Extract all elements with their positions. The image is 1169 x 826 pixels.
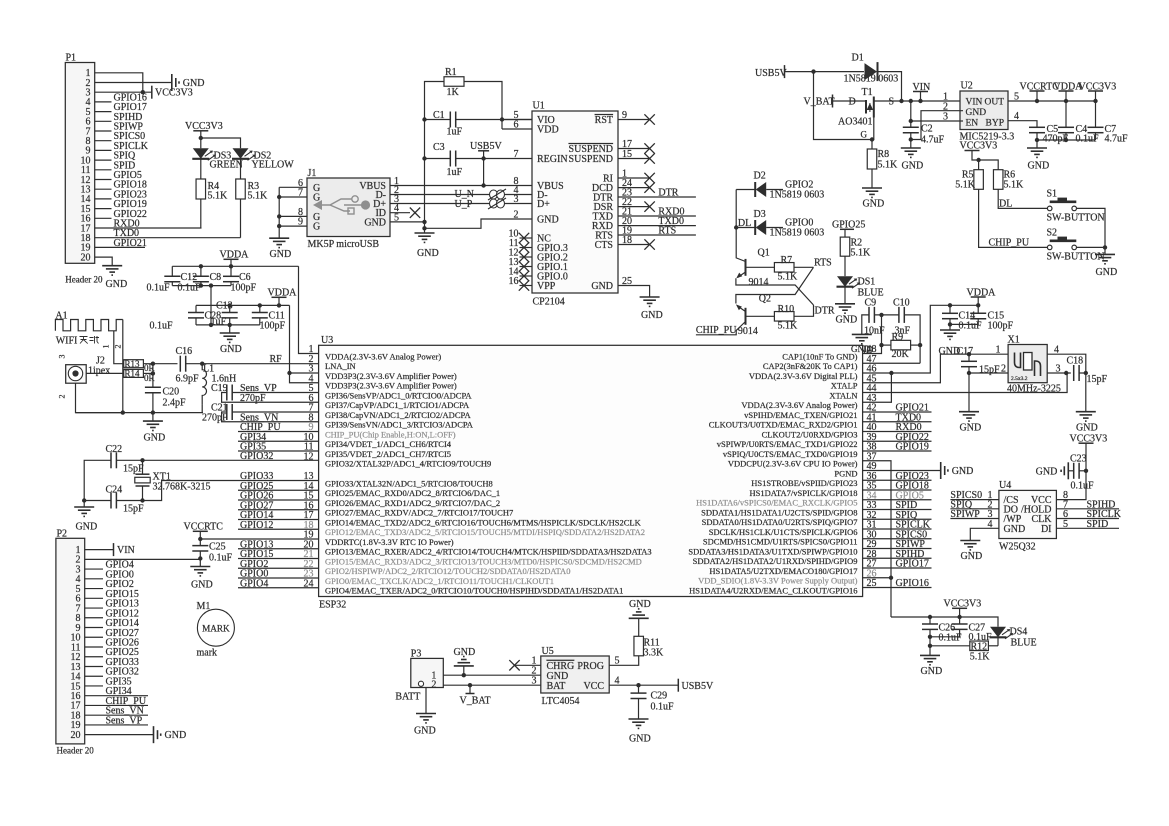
wire C3 right / REGIN [456, 158, 532, 160]
ground GND (USB input) [415, 232, 435, 234]
U1 pin 9 RST no-connect [618, 119, 650, 121]
svg-text:W25Q32: W25Q32 [999, 542, 1036, 553]
wire GPIO25 to R2 [844, 229, 846, 237]
U1 VIO pin wire [502, 119, 532, 121]
P2 pin 12 wire / net GPIO25 [85, 656, 103, 658]
svg-text:3: 3 [514, 194, 519, 205]
svg-text:S1: S1 [1047, 189, 1058, 200]
wire C7 legs [1095, 101, 1097, 127]
P2 pin 14 wire / net GPIO32 [85, 675, 103, 677]
svg-text:GPI39/SensVN/ADC1_3/RTCIO3/ADC: GPI39/SensVN/ADC1_3/RTCIO3/ADCPA [325, 420, 474, 430]
wire J1-4 ID no-connect [390, 212, 410, 214]
svg-text:GND: GND [961, 551, 983, 562]
svg-text:U4: U4 [999, 480, 1011, 491]
svg-text:C17: C17 [957, 346, 974, 357]
capacitor C21 270pF [226, 404, 228, 420]
capacitor C16 6.9pF [179, 356, 181, 372]
U1 pin 13 GPIO.1 no-connect [520, 266, 533, 268]
U4 GND pin wire [970, 528, 999, 540]
wire C1 left [425, 119, 451, 121]
svg-text:G: G [313, 222, 320, 233]
wire USB5V to D1 [785, 71, 865, 73]
svg-text:2.5x3.2: 2.5x3.2 [1011, 376, 1028, 382]
svg-text:RTS: RTS [658, 226, 676, 237]
wire L1 bottom to rail [201, 405, 203, 413]
svg-text:5.1K: 5.1K [778, 321, 799, 332]
U5 CHRG no-connect [515, 664, 541, 666]
wire J1-5 GND [390, 221, 425, 223]
wire C21 left to pin 8 Sens_VN [222, 412, 319, 422]
svg-text:USB5V: USB5V [755, 68, 787, 79]
svg-text:VDD3P3(2.3V-3.6V Amplifier Pow: VDD3P3(2.3V-3.6V Amplifier Power) [325, 381, 457, 391]
U1 pin 18 CTS no-connect [618, 244, 650, 246]
U3 pin 42 stub net GPIO21 [863, 411, 932, 413]
svg-text:SUSPEND: SUSPEND [569, 154, 613, 165]
U3 pin 10 stub net GPI34 [238, 440, 319, 442]
resistor R8 5.1K [867, 149, 877, 169]
U3 pin 15 stub net GPIO26 [238, 499, 319, 501]
wire X1 pin3 to C18 [1047, 372, 1071, 374]
svg-text:4.7uF: 4.7uF [1105, 134, 1129, 145]
svg-text:15pF: 15pF [123, 464, 144, 475]
svg-text:0.1uF: 0.1uF [147, 283, 171, 294]
wire U3 pin 26 [863, 577, 891, 579]
connector P1 Header 20 [65, 63, 94, 264]
svg-text:0.1uF: 0.1uF [178, 283, 202, 294]
svg-text:R10: R10 [778, 304, 795, 315]
wire antenna pin2 ground stub [122, 320, 124, 413]
svg-text:0.1uF: 0.1uF [939, 633, 963, 644]
svg-text:CHIP_PU(Chip Enable,H:ON,L:OFF: CHIP_PU(Chip Enable,H:ON,L:OFF) [325, 429, 456, 439]
wire U3 pin46/43 VDDA [863, 305, 950, 373]
svg-text:VIN: VIN [966, 98, 983, 108]
wire cluster1 to cluster2 gnd [210, 286, 212, 325]
wire CAP2 to U3 pin 47 [863, 362, 921, 364]
capacitor C29 0.1uF [631, 692, 647, 694]
svg-text:GND: GND [641, 310, 663, 321]
wire rail to GND [1036, 140, 1038, 148]
svg-text:VCC3V3: VCC3V3 [155, 88, 193, 99]
wire Q2 base / R10 [746, 315, 775, 317]
ground GND (P1 pin 20) [102, 265, 122, 267]
ground GND (C26/C27) [920, 654, 940, 656]
U1 pin 1 RI no-connect [618, 177, 650, 179]
capacitor C11 100pF [252, 312, 268, 314]
ground rail (antenna) [76, 412, 204, 414]
wire VDDA rail1 to U3 pin 1 [299, 266, 319, 353]
P1 pin 3 wire to VCC3V3 [95, 91, 152, 93]
svg-text:9014: 9014 [749, 277, 769, 288]
J1 pin 9 G wire [279, 225, 307, 227]
svg-text:GND: GND [836, 315, 858, 326]
U3 pin 35 stub net GPIO18 [863, 489, 932, 491]
wire Q1 emitter rail to DTR [736, 278, 814, 305]
capacitor C2 4.7uF [903, 126, 919, 128]
wire CAP1 vertical [863, 315, 882, 354]
wire rail to GND [152, 413, 154, 422]
svg-text:C9: C9 [865, 298, 877, 309]
wire R1 right leg [464, 82, 502, 130]
U3 pin 24 stub net GPIO4 [238, 587, 319, 589]
svg-text:D1: D1 [852, 53, 864, 64]
svg-text:SDDATA0/HS1DATA0/U2RTS/SPIQ/GP: SDDATA0/HS1DATA0/U2RTS/SPIQ/GPIO7 [702, 517, 858, 527]
U3 pin 30 stub net SPICS0 [863, 538, 932, 540]
svg-text:BATT: BATT [395, 692, 420, 703]
svg-text:VDDA(2.3V-3.6V Analog Power): VDDA(2.3V-3.6V Analog Power) [325, 351, 441, 361]
svg-text:R1: R1 [445, 67, 457, 78]
svg-text:GPIO17: GPIO17 [896, 559, 929, 570]
svg-text:VIN: VIN [117, 545, 135, 556]
ground GND (C18) [1076, 411, 1096, 413]
wire R13 out / RF node [143, 363, 177, 365]
U3 pin 32 stub net SPIQ [863, 518, 932, 520]
ground GND (U5, inverted) [463, 666, 465, 675]
U3 pin 25 stub net GPIO16 [863, 587, 932, 589]
wire DS4 to R12 [997, 638, 999, 646]
crystal X1 40MHz-3225 [1008, 345, 1047, 383]
IC U1 CP2104 [532, 111, 618, 293]
wire C17 bottom to GND [967, 371, 971, 375]
svg-text:15pF: 15pF [1087, 374, 1108, 385]
svg-text:VDDA(2.3V-3.6V Digital PLL): VDDA(2.3V-3.6V Digital PLL) [749, 371, 858, 381]
wire X1 pin4 [1047, 354, 1086, 373]
svg-text:C20: C20 [163, 387, 180, 398]
svg-text:GND: GND [106, 279, 128, 290]
LED DS2 YELLOW [233, 148, 249, 159]
resistor R10 5.1K [774, 312, 794, 322]
svg-text:1: 1 [102, 345, 111, 349]
ground GND (R11, inverted) [629, 617, 649, 619]
svg-text:C3: C3 [433, 142, 445, 153]
wire C17 legs [968, 354, 970, 361]
ground GND (C5) [1027, 147, 1047, 149]
svg-text:SPIWP: SPIWP [950, 509, 980, 520]
svg-text:R7: R7 [781, 255, 793, 266]
svg-text:16: 16 [509, 276, 519, 287]
wire Q2 collector to CHIP_PU [696, 322, 746, 335]
svg-text:GPIO27/EMAC_RXDV/ADC2_7/RTCIO1: GPIO27/EMAC_RXDV/ADC2_7/RTCIO17/TOUCH7 [325, 508, 513, 518]
svg-text:GPIO14/EMAC_TXD2/ADC2_6/RTCIO1: GPIO14/EMAC_TXD2/ADC2_6/RTCIO16/TOUCH6/M… [325, 517, 642, 527]
wire J2 ground [76, 383, 123, 412]
svg-text:GND: GND [629, 734, 651, 745]
ground GND (U4) [960, 540, 980, 542]
wire C24 right to GPIO33 [116, 481, 318, 501]
resistor R12 5.1K [970, 641, 989, 651]
P1 pin 5 wire / net GPIO17 [95, 111, 112, 113]
P1 pin 18 wire / net TXD0 [95, 237, 241, 239]
capacitor C5 470pF [1029, 126, 1045, 128]
svg-text:5.1K: 5.1K [851, 248, 872, 259]
wire U5 VCC to USB5V [609, 684, 678, 686]
U3 pin 34 stub net GPIO5 [863, 499, 932, 501]
svg-text:LNA_IN: LNA_IN [325, 361, 356, 371]
U1 pin 12 GPIO.2 no-connect [520, 256, 533, 258]
svg-text:DL: DL [999, 199, 1012, 210]
gnd rail cluster 1 [172, 285, 231, 287]
ground GND (DS1) [835, 303, 855, 305]
ground GND (C25) [190, 566, 210, 568]
no-connect X (J1 ID) [410, 208, 420, 218]
svg-text:5.1K: 5.1K [248, 191, 269, 202]
svg-text:GREEN: GREEN [210, 160, 243, 171]
wire C3 left [425, 158, 451, 160]
capacitor C8 0.1uF [193, 275, 209, 277]
svg-text:RTS: RTS [814, 258, 832, 269]
P1 pin 13 wire / net GPIO18 [95, 188, 112, 190]
wire Q1 base / R7 [746, 266, 775, 268]
U3 pin 38 stub net GPIO19 [863, 450, 932, 452]
wire C24 left to GND [84, 501, 111, 508]
node USB5V/VBUS junction [481, 183, 485, 187]
wire X1 pin2 [969, 372, 1008, 374]
wire VDDA rail2 to U3 pins 3/4 [290, 305, 319, 382]
svg-text:GND: GND [863, 199, 885, 210]
wire VCC3V3 to DS2 [201, 138, 241, 148]
svg-text:1N5819 0603: 1N5819 0603 [770, 228, 825, 239]
U3 pin 40 stub net RXD0 [863, 431, 932, 433]
U4 pin 6 wire net SPICLK [1056, 518, 1119, 520]
svg-text:GPIO19: GPIO19 [896, 442, 929, 453]
svg-text:1uF: 1uF [447, 127, 463, 138]
svg-text:C16: C16 [176, 346, 193, 357]
resistor R11 3.3K [634, 636, 644, 656]
svg-text:3: 3 [1056, 364, 1061, 375]
svg-text:D: D [849, 97, 856, 108]
wire DS1 to GND [844, 287, 846, 304]
node P3/U5 gnd junction [462, 673, 466, 677]
U3 pin 23 stub net GPIO0 [238, 577, 319, 579]
svg-text:MK5P microUSB: MK5P microUSB [308, 239, 380, 250]
svg-text:YELLOW: YELLOW [252, 160, 295, 171]
U3 pin 21 stub net GPIO15 [238, 558, 319, 560]
svg-text:mark: mark [197, 648, 218, 659]
wire D- J1-2 to U1-4 [390, 194, 532, 196]
node C17 junction [967, 352, 971, 356]
svg-text:X1: X1 [1008, 335, 1020, 346]
wire cluster2 to GND [229, 325, 231, 333]
svg-text:20: 20 [81, 252, 91, 263]
ferrite bead on D- line [488, 189, 506, 200]
resistor R4 5.1K [196, 179, 206, 199]
ground GND (R8) [862, 187, 882, 189]
svg-text:1uF: 1uF [447, 167, 463, 178]
IC U5 LTC4054 [541, 656, 609, 693]
svg-text:HS1DATA5/U2TXD/EMACO180/GPIO17: HS1DATA5/U2TXD/EMACO180/GPIO17 [709, 566, 857, 576]
P1 pin 17 wire / net RXD0 [95, 227, 202, 229]
svg-text:REGIN: REGIN [537, 154, 568, 165]
svg-text:ESP32: ESP32 [319, 600, 346, 611]
P1 pin 11 wire / net SPID [95, 169, 112, 171]
resistor R6 5.1K [993, 170, 1003, 190]
capacitor C24 15pF [110, 493, 112, 509]
wire pin43 to pin46 [863, 373, 892, 402]
svg-text:0.1uF: 0.1uF [150, 321, 174, 332]
ground GND (P3) [416, 713, 436, 715]
ground GND (P1 pins 2) [171, 74, 173, 91]
svg-text:SW-BUTTON: SW-BUTTON [1047, 252, 1105, 263]
P2 pin 13 wire / net GPIO33 [85, 665, 103, 667]
P2 pin 4 wire / net GPIO0 [85, 578, 103, 580]
resistor R5 5.1K [974, 170, 984, 190]
wire C15 legs [977, 305, 979, 313]
svg-text:SW-BUTTON: SW-BUTTON [1047, 213, 1105, 224]
IC U4 W25Q32 [999, 490, 1057, 538]
svg-text:GPIO26/EMAC_RXD1/ADC2_9/RTCIO7: GPIO26/EMAC_RXD1/ADC2_9/RTCIO7/DAC_2 [325, 498, 500, 508]
svg-text:LTC4054: LTC4054 [542, 696, 580, 707]
svg-text:VDDCPU(2.3V-3.6V CPU IO Power): VDDCPU(2.3V-3.6V CPU IO Power) [728, 459, 858, 469]
svg-text:vSPIWP/U0RTS/EMAC_TXD1/GPIO22: vSPIWP/U0RTS/EMAC_TXD1/GPIO22 [717, 439, 858, 449]
svg-text:GND: GND [454, 647, 476, 658]
svg-text:Sens_VN: Sens_VN [240, 412, 278, 423]
U3 pin 39 stub net GPIO22 [863, 440, 932, 442]
P1 pin 14 wire / net GPIO23 [95, 198, 112, 200]
wire S2 to GND [1077, 247, 1106, 254]
svg-text:G: G [861, 130, 868, 140]
wire antenna pin1 to R13 [114, 331, 124, 364]
svg-text:GND: GND [902, 161, 924, 172]
gnd rail cluster 2 [196, 324, 260, 326]
svg-text:VDD_SDIO(1.8V-3.3V Power Suppl: VDD_SDIO(1.8V-3.3V Power Supply Output) [698, 576, 858, 586]
capacitor C28 1uF [188, 312, 204, 314]
P1 pin 2 wire to GND [95, 82, 172, 84]
capacitor C12 0.1uF [164, 275, 180, 277]
U3 pin 22 stub net GPIO2 [238, 567, 319, 569]
svg-text:20: 20 [71, 730, 81, 741]
svg-text:GND: GND [629, 599, 651, 610]
wire XTALN to X1 pin3 [863, 373, 1068, 393]
svg-text:SDCMD/HS1CMD/U1RTS/SPICS0/GPIO: SDCMD/HS1CMD/U1RTS/SPICS0/GPIO11 [703, 537, 858, 547]
svg-text:7: 7 [298, 188, 303, 199]
wire VCC3V3 to R5 R6 [972, 151, 998, 170]
wire U2 BYP to C5 [1008, 121, 1037, 128]
P2 pin 3 wire / net GPIO4 [85, 568, 103, 570]
svg-text:BLUE: BLUE [1011, 638, 1037, 649]
svg-text:M1: M1 [197, 601, 211, 612]
U3 pin 31 stub net SPICLK [863, 528, 932, 530]
svg-text:RF: RF [270, 354, 283, 365]
svg-text:2: 2 [431, 680, 436, 691]
capacitor C23 0.1uF [1073, 463, 1075, 479]
svg-text:PGND: PGND [834, 468, 857, 478]
svg-text:U1: U1 [533, 101, 545, 112]
svg-text:GPIO15/EMAC_RXD3/ADC2_3/RTCIO1: GPIO15/EMAC_RXD3/ADC2_3/RTCIO13/TOUCH3/M… [325, 556, 642, 566]
P1 pin 4 wire / net GPIO16 [95, 101, 112, 103]
svg-text:GND: GND [966, 108, 987, 118]
node DL [734, 225, 738, 229]
wire R14 out [143, 372, 153, 374]
svg-text:20K: 20K [892, 349, 910, 360]
svg-text:100pF: 100pF [988, 321, 1014, 332]
U3 pin 9 stub net CHIP_PU [238, 431, 319, 433]
svg-text:Q2: Q2 [759, 294, 771, 305]
P2 pin 6 wire / net GPIO15 [85, 597, 103, 599]
wire XTALP to X1 pin1 [863, 354, 1009, 383]
diode D3 1N5819 0603 (GPIO0) [736, 227, 755, 229]
U1 pin 24 DCD no-connect [618, 187, 650, 189]
capacitor C6 100pF [223, 275, 239, 277]
svg-text:1ipex: 1ipex [88, 366, 110, 377]
P2 pin 19 wire / net Sens_VP [85, 724, 148, 726]
svg-text:CTS: CTS [595, 240, 613, 251]
svg-text:DTR: DTR [658, 188, 678, 199]
svg-text:GND: GND [1096, 267, 1118, 278]
capacitor C20 2.4pF [145, 386, 161, 388]
wire C23 right [1079, 470, 1086, 472]
svg-text:GPIO2/HSPIWP/ADC2_2/RTCIO12/TO: GPIO2/HSPIWP/ADC2_2/RTCIO12/TOUCH2/SDDAT… [325, 566, 570, 576]
wire C13 legs [229, 305, 231, 312]
svg-text:R8: R8 [878, 149, 890, 160]
wire U2 EN tie to VIN [911, 101, 963, 121]
P2 pin 16 wire / net GPI34 [85, 695, 148, 697]
ground GND (C23, sideways) [1067, 462, 1069, 479]
wire R10 to DTR corner [794, 305, 814, 316]
resistor R1 1K [444, 77, 464, 87]
wire U5 PROG to R11 [609, 656, 639, 666]
capacitor C18 15pF [1073, 365, 1075, 381]
svg-text:D3: D3 [754, 209, 766, 220]
U3 pin 7 wire [232, 411, 318, 413]
P1 pin 20 wire to GND [95, 257, 113, 266]
P1 pin 15 wire / net GPIO19 [95, 208, 112, 210]
wire C11 legs [259, 305, 261, 312]
svg-text:0.1uF: 0.1uF [651, 702, 675, 713]
svg-text:GND: GND [1028, 161, 1050, 172]
svg-text:GND: GND [952, 466, 974, 477]
wire DS2 to R3 [240, 159, 242, 179]
wire J2 feed to R14 [86, 372, 124, 374]
svg-text:4.7uF: 4.7uF [921, 135, 945, 146]
svg-text:2: 2 [58, 395, 67, 399]
wire VBUS J1-1 to U1-8 [390, 185, 532, 187]
U3 pin 33 stub net SPID [863, 509, 932, 511]
svg-text:GPI38/CapVN/ADC1_2/RTCIO2/ADCP: GPI38/CapVN/ADC1_2/RTCIO2/ADCPA [325, 410, 471, 420]
svg-text:Q1: Q1 [758, 248, 770, 259]
P2 pin 10 wire / net GPIO27 [85, 636, 103, 638]
svg-text:D2: D2 [754, 171, 766, 182]
power flag V_BAT (charger) [469, 685, 471, 693]
svg-text:GPIO12: GPIO12 [240, 520, 273, 531]
P1 pin 9 wire / net SPICLK [95, 149, 112, 151]
capacitor C17 15pF [961, 360, 977, 362]
U1 pin 20 wire net TXD0 [618, 225, 696, 227]
svg-text:GPI36/SensVP/ADC1_0/RTCIO0/ADC: GPI36/SensVP/ADC1_0/RTCIO0/ADCPA [325, 390, 472, 400]
svg-text:15pF: 15pF [979, 365, 1000, 376]
svg-text:GND: GND [220, 344, 242, 355]
J1 pin 8 G wire [279, 215, 307, 217]
wire C19 left to pin 6 [222, 393, 319, 403]
svg-text:vSPIHD/EMAC_TXEN/GPIO21: vSPIHD/EMAC_TXEN/GPIO21 [744, 410, 857, 420]
svg-text:VPP: VPP [537, 281, 556, 292]
svg-text:XTALP: XTALP [831, 381, 858, 391]
P1 pin 10 wire / net SPIQ [95, 159, 112, 161]
P2 pin 8 wire / net GPIO12 [85, 617, 103, 619]
svg-text:GND: GND [414, 726, 436, 737]
LED DS4 BLUE [990, 627, 1006, 638]
wire bypass gnd rail [1037, 139, 1096, 141]
svg-text:100pF: 100pF [231, 283, 257, 294]
svg-text:5.1K: 5.1K [955, 180, 976, 191]
svg-text:3: 3 [58, 355, 67, 359]
J1 pin 6 G wire [279, 186, 307, 188]
U3 pin 14 stub net GPIO25 [238, 489, 319, 491]
svg-text:D+: D+ [537, 199, 550, 210]
wire R6 to S1 / net DL [998, 189, 1047, 208]
wire D1 cathode to VIN node [878, 72, 902, 101]
svg-text:EN: EN [966, 119, 979, 129]
capacitor C25 0.1uF [192, 545, 208, 547]
wire C16 to LNA_IN / RF [186, 363, 319, 365]
IC U3 ESP32 [319, 345, 863, 596]
